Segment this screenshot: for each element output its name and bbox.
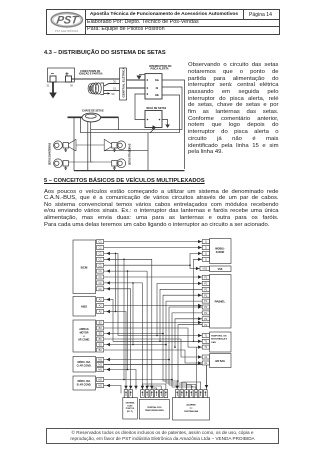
svg-text:30: 30 (113, 80, 116, 84)
svg-text:PST ELETRÔNICA: PST ELETRÔNICA (55, 30, 78, 33)
svg-text:BCM: BCM (81, 266, 88, 270)
svg-text:ALARME: ALARME (186, 404, 196, 407)
svg-text:−: − (51, 72, 55, 78)
svg-text:+: + (65, 71, 69, 78)
svg-text:49b: 49b (155, 94, 160, 97)
svg-text:DOIS: DOIS (128, 405, 134, 407)
svg-text:15: 15 (113, 87, 116, 91)
svg-text:AR COND.: AR COND. (78, 339, 90, 342)
svg-text:PAINEL: PAINEL (215, 300, 226, 304)
svg-text:CENTRAL/BA: CENTRAL/BA (184, 410, 199, 413)
svg-text:SEGURANÇA E: SEGURANÇA E (211, 338, 228, 341)
svg-text:PISCA ALERTA: PISCA ALERTA (151, 68, 169, 71)
svg-text:AIR BAG: AIR BAG (215, 360, 225, 363)
svg-text:C/ AR COND.: C/ AR COND. (77, 365, 92, 368)
svg-text:S/ AR COND.: S/ AR COND. (77, 384, 92, 387)
svg-text:CENTRAL ELÉTRICA: CENTRAL ELÉTRICA (121, 67, 126, 98)
svg-text:ABS: ABS (81, 305, 87, 309)
svg-text:CENTRAL DOS: CENTRAL DOS (147, 406, 162, 409)
svg-text:PST: PST (55, 15, 79, 27)
svg-text:31: 31 (47, 84, 50, 88)
svg-text:(D.I.T.): (D.I.T.) (127, 411, 133, 413)
svg-text:VSS: VSS (202, 267, 207, 271)
svg-text:SETAS DIANTEIRAS: SETAS DIANTEIRAS (49, 142, 52, 165)
svg-text:VSS: VSS (218, 268, 223, 271)
svg-text:IGNIÇÃO E PARTIDA: IGNIÇÃO E PARTIDA (79, 73, 103, 76)
svg-text:SISTEMA: SISTEMA (126, 402, 135, 405)
svg-text:CHAVE DE SETAS: CHAVE DE SETAS (82, 110, 104, 113)
svg-text:PONTOS: PONTOS (126, 408, 135, 410)
svg-text:TEMPORIZ. DE: TEMPORIZ. DE (211, 336, 227, 338)
svg-text:50: 50 (112, 92, 115, 96)
svg-text:RELÉ DE SETAS: RELÉ DE SETAS (147, 107, 167, 110)
svg-text:SETAS TRASEIRAS: SETAS TRASEIRAS (129, 143, 132, 165)
svg-text:CAN: CAN (211, 341, 216, 344)
svg-text:ZADOR: ZADOR (216, 251, 225, 254)
svg-text:TEMPORIZADORES: TEMPORIZADORES (145, 409, 165, 412)
svg-text:30: 30 (70, 84, 73, 88)
